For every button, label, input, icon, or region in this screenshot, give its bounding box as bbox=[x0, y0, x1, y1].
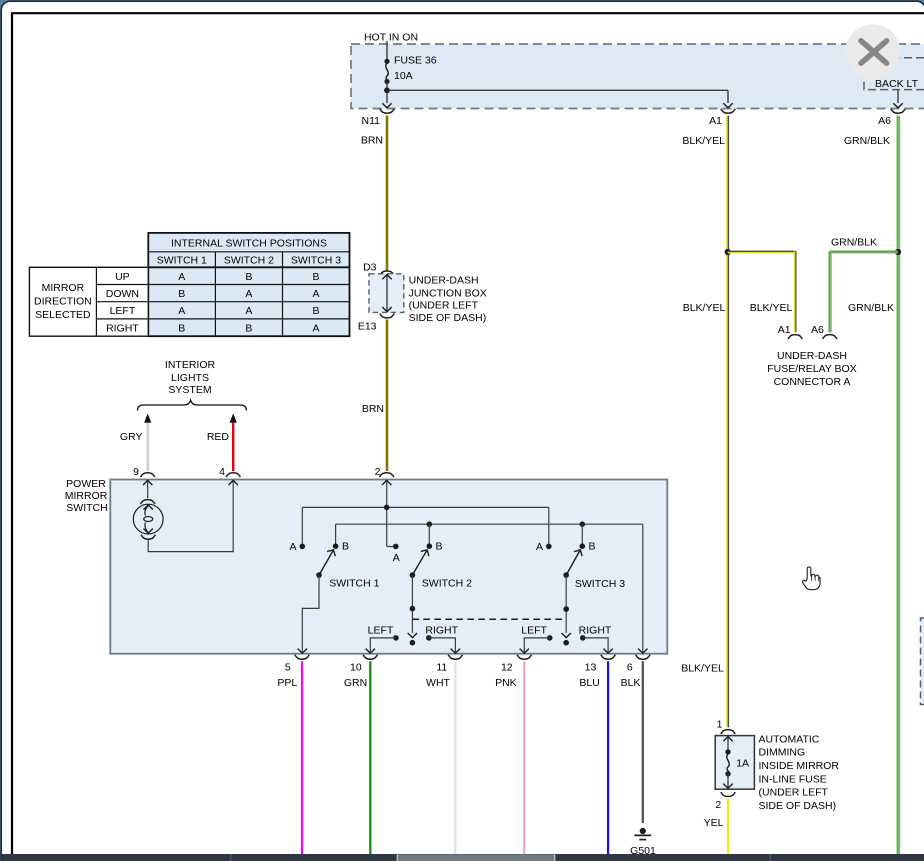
junction BLK/YEL bbox=[725, 249, 731, 255]
power mirror switch label bbox=[65, 478, 108, 514]
switch 2 LEFT contact to pin 10 bbox=[366, 624, 399, 653]
svg-text:BACK LT: BACK LT bbox=[875, 78, 919, 90]
svg-text:A: A bbox=[178, 305, 185, 317]
connector pin 11 (WHT) bbox=[426, 655, 463, 689]
svg-text:IN-LINE FUSE: IN-LINE FUSE bbox=[759, 773, 827, 785]
svg-text:4: 4 bbox=[219, 466, 225, 478]
wire BRN lower segment bbox=[362, 320, 387, 472]
svg-text:SIDE OF DASH): SIDE OF DASH) bbox=[409, 312, 487, 324]
svg-text:INSIDE MIRROR: INSIDE MIRROR bbox=[759, 760, 840, 772]
svg-text:MIRROR: MIRROR bbox=[65, 490, 108, 502]
svg-text:BLK/YEL: BLK/YEL bbox=[681, 663, 724, 675]
svg-text:A: A bbox=[178, 271, 185, 283]
connector pin 13 (BLU) bbox=[579, 655, 615, 689]
svg-text:UNDER-DASH: UNDER-DASH bbox=[777, 350, 847, 362]
wire drop to A1 with arrow bbox=[723, 90, 732, 108]
connector pin 5 (PPL) bbox=[277, 655, 309, 689]
connector pin 12 (PNK) bbox=[495, 655, 531, 689]
svg-text:INTERIOR: INTERIOR bbox=[165, 359, 216, 371]
svg-text:B: B bbox=[245, 322, 252, 334]
switch 3 RIGHT contact to pin 13 bbox=[579, 625, 613, 654]
svg-text:B: B bbox=[342, 541, 349, 553]
power mirror switch box bbox=[110, 480, 667, 654]
svg-text:A: A bbox=[312, 288, 319, 300]
junction box through-wire with arrows bbox=[382, 275, 391, 312]
under-dash junction box bbox=[369, 274, 404, 313]
wire WHT from pin 11 bbox=[454, 661, 456, 854]
bottom scrollbar track bbox=[2, 854, 924, 861]
svg-text:SWITCH 1: SWITCH 1 bbox=[329, 577, 379, 589]
switch 1 output wire to pin 5 bbox=[298, 575, 319, 653]
wire PNK from pin 12 bbox=[523, 661, 525, 854]
label GRN/BLK mid bbox=[848, 302, 894, 314]
svg-text:AUTOMATIC: AUTOMATIC bbox=[759, 733, 820, 745]
fuse 36 value labels bbox=[394, 55, 437, 83]
label BLK/YEL top bbox=[682, 135, 725, 147]
svg-text:WHT: WHT bbox=[426, 677, 450, 689]
svg-text:MIRROR: MIRROR bbox=[42, 282, 85, 294]
svg-text:YEL: YEL bbox=[704, 817, 724, 829]
switch SWITCH 1 label bbox=[329, 577, 379, 589]
switch SW2 arm bbox=[410, 547, 432, 577]
svg-text:BLK/YEL: BLK/YEL bbox=[683, 302, 726, 314]
node BACK LT label bbox=[875, 78, 919, 90]
connector A1 (top) bbox=[709, 109, 735, 127]
svg-text:SIDE OF DASH): SIDE OF DASH) bbox=[759, 800, 837, 812]
svg-text:1A: 1A bbox=[736, 757, 749, 769]
svg-text:SWITCH 1: SWITCH 1 bbox=[157, 254, 207, 266]
svg-text:DIRECTION: DIRECTION bbox=[34, 296, 92, 308]
gang link dashed bbox=[412, 618, 566, 620]
svg-text:LEFT: LEFT bbox=[110, 305, 136, 317]
label GRN/BLK above branch bbox=[831, 236, 877, 248]
label GRN/BLK top bbox=[844, 135, 890, 147]
connector A6 (fuse/relay box) bbox=[811, 324, 837, 339]
switch SW3 contact B bbox=[580, 543, 586, 549]
connector 2 (in-line fuse) bbox=[715, 792, 735, 811]
junction box text bbox=[409, 275, 487, 324]
wire branch BLK/YEL to A1 connector bbox=[728, 251, 796, 332]
svg-text:GRN/BLK: GRN/BLK bbox=[848, 302, 894, 314]
svg-text:UP: UP bbox=[115, 271, 130, 283]
connector E13 bbox=[358, 314, 394, 333]
svg-text:1: 1 bbox=[717, 718, 723, 730]
connector N11 bbox=[362, 109, 395, 127]
svg-text:A6: A6 bbox=[811, 324, 824, 336]
svg-text:SWITCH 2: SWITCH 2 bbox=[224, 254, 274, 266]
svg-text:11: 11 bbox=[436, 661, 447, 673]
switch SWITCH 3 label bbox=[575, 578, 625, 590]
svg-text:(UNDER LEFT: (UNDER LEFT bbox=[759, 787, 829, 799]
svg-text:BLK: BLK bbox=[621, 677, 641, 689]
svg-text:A: A bbox=[536, 541, 543, 553]
connector 1 (in-line fuse) bbox=[717, 718, 736, 734]
row A drops bbox=[302, 507, 549, 546]
mouse hand cursor bbox=[803, 567, 821, 590]
wire branch GRN/BLK to A6 connector bbox=[830, 252, 899, 333]
switch SW1 contact A bbox=[300, 544, 306, 550]
switch SW1 arm bbox=[316, 547, 337, 577]
svg-text:13: 13 bbox=[585, 661, 597, 673]
svg-text:9: 9 bbox=[133, 466, 139, 478]
svg-text:A: A bbox=[245, 288, 252, 300]
svg-text:SWITCH 3: SWITCH 3 bbox=[291, 254, 341, 266]
svg-text:SYSTEM: SYSTEM bbox=[168, 384, 211, 396]
switch 3 LEFT contact to pin 12 bbox=[520, 625, 553, 654]
svg-text:RED: RED bbox=[207, 431, 230, 443]
wire BLK from pin 6 bbox=[642, 661, 644, 823]
wire RED to interior lights bbox=[207, 413, 237, 471]
connector pin 4 bbox=[219, 466, 240, 478]
bus row A bbox=[302, 505, 549, 511]
wire GRY to interior lights bbox=[120, 413, 151, 471]
svg-text:A: A bbox=[312, 322, 319, 334]
svg-text:SWITCH: SWITCH bbox=[66, 502, 107, 514]
svg-text:12: 12 bbox=[501, 661, 513, 673]
BACK LT dashed box bbox=[864, 58, 924, 90]
svg-text:(UNDER LEFT: (UNDER LEFT bbox=[409, 299, 479, 311]
power distribution dashed band (HOT IN ON) bbox=[351, 44, 924, 109]
connector pin 9 bbox=[133, 466, 155, 478]
wire YEL bbox=[704, 798, 728, 854]
svg-text:B: B bbox=[245, 271, 252, 283]
svg-text:A: A bbox=[289, 541, 296, 553]
svg-text:A1: A1 bbox=[709, 115, 722, 127]
svg-text:SWITCH 2: SWITCH 2 bbox=[422, 577, 472, 589]
svg-text:LEFT: LEFT bbox=[368, 624, 394, 636]
svg-text:BRN: BRN bbox=[361, 134, 383, 146]
svg-text:RIGHT: RIGHT bbox=[579, 625, 612, 637]
svg-text:B: B bbox=[436, 541, 443, 553]
svg-text:A6: A6 bbox=[878, 115, 891, 127]
svg-text:DOWN: DOWN bbox=[106, 288, 139, 300]
svg-text:LEFT: LEFT bbox=[521, 625, 547, 637]
switch 2 common down bbox=[408, 575, 417, 645]
wire BRN upper segment bbox=[361, 116, 387, 272]
wire fuse output to A1 drop bbox=[387, 89, 728, 91]
svg-text:B: B bbox=[312, 305, 319, 317]
svg-text:BLK/YEL: BLK/YEL bbox=[750, 302, 793, 314]
connector A6 (top) bbox=[878, 109, 905, 127]
svg-text:FUSE 36: FUSE 36 bbox=[394, 55, 437, 67]
wire row B to pin 6 bbox=[638, 524, 647, 653]
ground label G501 bbox=[630, 845, 656, 857]
svg-text:BLK/YEL: BLK/YEL bbox=[682, 135, 725, 147]
switch SW1 contact B bbox=[333, 543, 339, 549]
switch 3 labels A B bbox=[536, 541, 596, 554]
switch 2 labels A B bbox=[393, 541, 443, 565]
svg-text:LIGHTS: LIGHTS bbox=[171, 372, 209, 384]
wire lamp to pin 4 bbox=[148, 480, 238, 551]
svg-text:E13: E13 bbox=[358, 320, 377, 332]
switch SW3 arm bbox=[563, 548, 584, 578]
pin 2 entry arrow and common wire bbox=[382, 480, 396, 546]
svg-text:INTERNAL SWITCH POSITIONS: INTERNAL SWITCH POSITIONS bbox=[171, 237, 327, 249]
svg-text:SELECTED: SELECTED bbox=[35, 309, 91, 321]
bus row B bbox=[336, 521, 643, 527]
svg-text:JUNCTION BOX: JUNCTION BOX bbox=[409, 287, 487, 299]
svg-text:PNK: PNK bbox=[495, 677, 517, 689]
connector A1 (fuse/relay box) bbox=[778, 324, 803, 339]
node HOT IN ON label bbox=[364, 32, 418, 44]
wire BLK/YEL main (A1 column) bbox=[727, 116, 729, 728]
labels BLK/YEL mid bbox=[683, 302, 793, 314]
connector D3 bbox=[363, 261, 394, 275]
svg-text:5: 5 bbox=[285, 661, 291, 673]
switch SW2 contact B bbox=[427, 543, 433, 549]
switch 2 RIGHT contact to pin 11 bbox=[425, 624, 460, 653]
svg-text:UNDER-DASH: UNDER-DASH bbox=[409, 275, 479, 287]
junction GRN/BLK bbox=[895, 249, 901, 255]
connector pin 2 bbox=[375, 466, 394, 478]
clipped component box at right edge bbox=[921, 618, 924, 705]
connector pin 10 (GRN) bbox=[344, 655, 378, 689]
component label: automatic dimming inside mirror in-line fuse bbox=[759, 733, 840, 812]
label BLK/YEL lower bbox=[681, 663, 724, 675]
svg-text:GRN/BLK: GRN/BLK bbox=[831, 236, 877, 248]
svg-text:GRN/BLK: GRN/BLK bbox=[844, 135, 890, 147]
connector pin 6 (BLK) bbox=[621, 655, 651, 689]
switch 1 labels A B bbox=[289, 541, 349, 554]
svg-text:6: 6 bbox=[627, 661, 633, 673]
wire drop to N11 with arrow bbox=[382, 103, 391, 108]
svg-text:A: A bbox=[393, 552, 400, 564]
illumination lamp branch pin 9 entry bbox=[143, 480, 152, 498]
close (X) button bbox=[845, 24, 900, 79]
lamp connector arc lower bbox=[141, 535, 156, 539]
in-line fuse element bbox=[723, 737, 732, 789]
row B drops bbox=[336, 524, 583, 546]
switch SWITCH 2 label bbox=[422, 577, 472, 589]
lamp L1 bbox=[133, 504, 163, 534]
wire PPL from pin 5 bbox=[301, 661, 303, 854]
svg-text:FUSE/RELAY BOX: FUSE/RELAY BOX bbox=[767, 363, 856, 375]
svg-text:B: B bbox=[178, 288, 185, 300]
svg-text:CONNECTOR A: CONNECTOR A bbox=[774, 376, 851, 388]
svg-text:PPL: PPL bbox=[277, 677, 297, 689]
switch 3 common down bbox=[562, 575, 571, 645]
svg-text:N11: N11 bbox=[362, 115, 381, 127]
junction of fuse output bbox=[384, 87, 390, 93]
svg-text:GRY: GRY bbox=[120, 431, 143, 443]
svg-text:DIMMING: DIMMING bbox=[759, 747, 806, 759]
wire stub above band bbox=[386, 41, 388, 44]
svg-text:RIGHT: RIGHT bbox=[425, 624, 458, 636]
fuse F36 bbox=[384, 44, 389, 103]
wire GRN from pin 10 bbox=[369, 661, 371, 854]
svg-text:BLU: BLU bbox=[579, 677, 599, 689]
in-line fuse 1A box bbox=[715, 736, 754, 790]
svg-text:B: B bbox=[589, 541, 596, 553]
under-dash fuse/relay box label bbox=[767, 350, 856, 388]
svg-text:D3: D3 bbox=[363, 261, 377, 273]
svg-text:2: 2 bbox=[715, 799, 721, 811]
svg-text:BRN: BRN bbox=[362, 403, 384, 415]
table internal switch positions bbox=[29, 233, 349, 336]
svg-text:RIGHT: RIGHT bbox=[106, 322, 139, 334]
wire BLU from pin 13 bbox=[607, 661, 609, 857]
fuse value 1A bbox=[736, 757, 749, 769]
interior lights system label bbox=[165, 359, 216, 396]
lamp connector arc upper bbox=[140, 500, 155, 504]
ground G501 bbox=[634, 828, 651, 840]
svg-text:A1: A1 bbox=[778, 324, 791, 336]
svg-text:A: A bbox=[245, 305, 252, 317]
switch SW3 contact A bbox=[546, 544, 552, 550]
svg-text:10A: 10A bbox=[394, 70, 413, 82]
svg-text:B: B bbox=[178, 322, 185, 334]
wire BACK LT drop to A6 with arrow bbox=[893, 90, 902, 108]
svg-text:HOT IN ON: HOT IN ON bbox=[364, 32, 418, 44]
svg-text:SWITCH 3: SWITCH 3 bbox=[575, 578, 625, 590]
switch SW2 contact A bbox=[393, 544, 399, 550]
svg-text:POWER: POWER bbox=[66, 478, 106, 490]
svg-text:10: 10 bbox=[350, 661, 362, 673]
svg-text:GRN: GRN bbox=[344, 677, 367, 689]
brace bbox=[138, 400, 247, 410]
wire GRN/BLK main (A6 column) bbox=[898, 116, 900, 854]
svg-text:B: B bbox=[312, 271, 319, 283]
